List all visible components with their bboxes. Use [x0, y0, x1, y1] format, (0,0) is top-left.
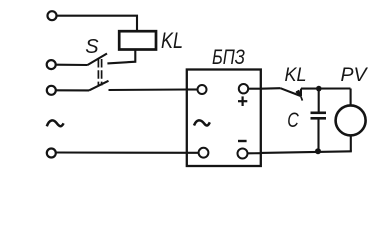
- svg-text:KL: KL: [285, 64, 307, 86]
- svg-text:PV: PV: [341, 64, 369, 86]
- svg-text:C: C: [287, 109, 299, 132]
- svg-text:S: S: [85, 36, 99, 58]
- svg-text:БПЗ: БПЗ: [212, 45, 245, 69]
- svg-text:KL: KL: [161, 28, 183, 53]
